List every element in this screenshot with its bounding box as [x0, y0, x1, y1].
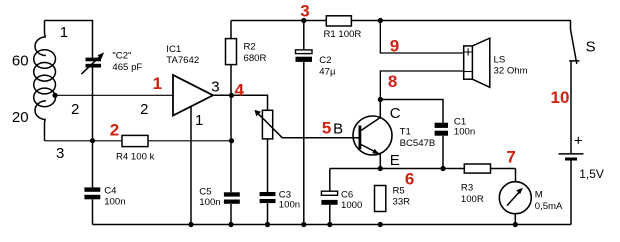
svg-text:100n: 100n [104, 197, 125, 208]
svg-text:6: 6 [405, 170, 414, 189]
svg-text:E: E [390, 152, 400, 169]
svg-text:3: 3 [56, 145, 64, 162]
svg-text:−: − [464, 63, 473, 80]
svg-text:1: 1 [195, 112, 203, 129]
svg-text:B: B [333, 121, 343, 138]
svg-text:7: 7 [506, 148, 515, 167]
svg-text:33R: 33R [393, 196, 411, 207]
svg-text:C5: C5 [199, 187, 211, 198]
svg-text:"C2": "C2" [112, 51, 131, 62]
svg-text:2: 2 [110, 120, 119, 139]
svg-text:R1 100R: R1 100R [324, 29, 362, 40]
svg-text:100n: 100n [279, 200, 300, 211]
svg-text:32 Ohm: 32 Ohm [494, 65, 528, 76]
svg-text:+: + [464, 44, 473, 61]
svg-text:680R: 680R [244, 53, 267, 64]
svg-text:1,5V: 1,5V [579, 167, 604, 181]
svg-text:R4 100 k: R4 100 k [116, 152, 155, 163]
svg-text:IC1: IC1 [166, 44, 181, 55]
svg-text:LS: LS [494, 54, 506, 65]
svg-text:0,5mA: 0,5mA [535, 201, 563, 212]
svg-text:BC547B: BC547B [400, 138, 436, 149]
svg-text:R5: R5 [393, 185, 405, 196]
svg-text:M: M [535, 189, 543, 200]
svg-text:R3: R3 [461, 183, 473, 194]
svg-text:100n: 100n [199, 197, 220, 208]
svg-text:TA7642: TA7642 [166, 55, 199, 66]
svg-text:S: S [586, 38, 596, 55]
svg-text:20: 20 [12, 109, 29, 126]
svg-text:2: 2 [140, 101, 148, 118]
svg-text:100R: 100R [461, 194, 484, 205]
svg-text:R2: R2 [244, 42, 256, 53]
svg-text:465 pF: 465 pF [112, 62, 142, 73]
svg-text:60: 60 [12, 53, 29, 70]
svg-text:2: 2 [71, 101, 79, 118]
svg-text:4: 4 [235, 81, 245, 100]
svg-text:47µ: 47µ [319, 66, 336, 77]
svg-text:8: 8 [388, 72, 397, 91]
svg-text:1: 1 [153, 74, 162, 93]
svg-text:C4: C4 [104, 186, 117, 197]
svg-text:3: 3 [300, 2, 309, 21]
svg-text:100n: 100n [454, 126, 475, 137]
svg-text:3: 3 [211, 79, 219, 96]
svg-text:C2: C2 [319, 55, 331, 66]
svg-text:1: 1 [60, 24, 68, 41]
svg-text:+: + [574, 133, 583, 150]
svg-text:10: 10 [551, 88, 570, 107]
svg-text:T1: T1 [400, 127, 411, 138]
svg-text:5: 5 [322, 119, 331, 138]
svg-text:C: C [390, 105, 401, 122]
svg-text:9: 9 [390, 37, 399, 56]
svg-text:1000: 1000 [341, 200, 362, 211]
